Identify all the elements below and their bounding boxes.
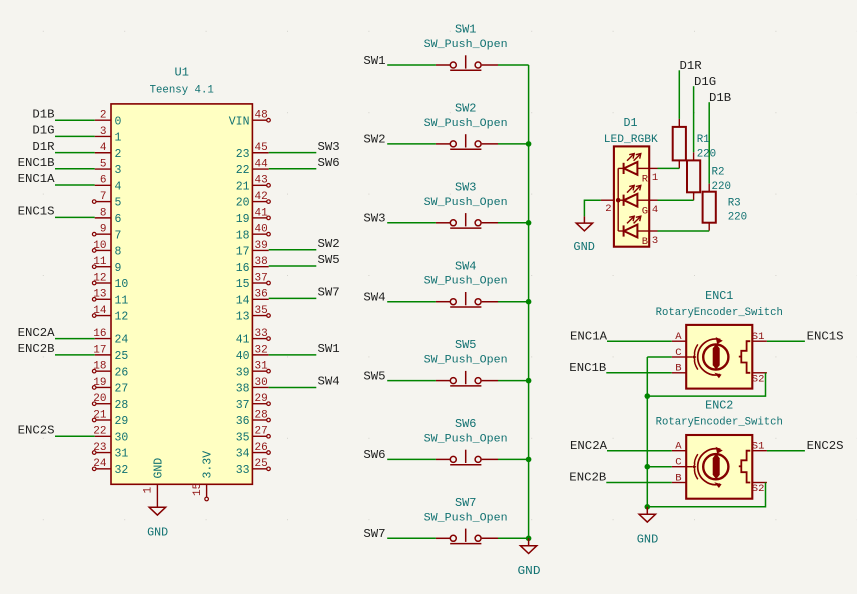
svg-text:SW6: SW6 xyxy=(455,417,477,431)
svg-text:A: A xyxy=(675,331,682,343)
svg-text:A: A xyxy=(675,441,682,453)
U1 pin 6 (4) xyxy=(95,175,122,194)
svg-text:2: 2 xyxy=(100,110,107,122)
wire xyxy=(55,354,95,356)
svg-text:B: B xyxy=(675,363,681,375)
svg-text:31: 31 xyxy=(115,448,129,461)
junction xyxy=(645,464,651,470)
svg-text:39: 39 xyxy=(255,240,268,252)
U1 pin 11 (9) xyxy=(92,256,121,275)
svg-text:42: 42 xyxy=(255,191,268,203)
wire xyxy=(387,380,436,382)
wire xyxy=(55,338,95,340)
svg-text:23: 23 xyxy=(236,148,250,161)
svg-text:SW_Push_Open: SW_Push_Open xyxy=(424,197,508,209)
wire xyxy=(708,102,710,184)
svg-text:SW4: SW4 xyxy=(363,291,385,305)
junction xyxy=(526,299,532,305)
svg-text:20: 20 xyxy=(93,393,106,405)
switch SW5 SW_Push_Open xyxy=(424,338,508,386)
U1 pin 32 (40) xyxy=(236,344,269,363)
svg-text:R2: R2 xyxy=(712,167,725,179)
svg-text:16: 16 xyxy=(93,328,106,340)
svg-text:D1B: D1B xyxy=(32,107,54,121)
svg-text:18: 18 xyxy=(236,229,250,242)
svg-text:SW4: SW4 xyxy=(318,375,340,389)
svg-text:S2: S2 xyxy=(752,483,765,495)
svg-text:GND: GND xyxy=(152,458,165,479)
svg-text:3: 3 xyxy=(100,126,107,138)
svg-text:ENC1A: ENC1A xyxy=(18,172,56,186)
junction xyxy=(645,393,651,399)
U1 pin 44 (22) xyxy=(236,158,269,177)
svg-text:32: 32 xyxy=(255,344,268,356)
resistor R3 220 xyxy=(703,184,748,231)
resistor R2 220 xyxy=(687,152,731,200)
wire xyxy=(387,143,436,145)
wire xyxy=(606,372,672,374)
wire xyxy=(498,64,529,66)
U1 pin 45 (23) xyxy=(236,142,269,161)
U1 pin 16 (24) xyxy=(93,328,128,347)
svg-text:SW3: SW3 xyxy=(318,140,340,154)
wire xyxy=(387,458,436,460)
U1 pin 21 (29) xyxy=(92,409,128,428)
svg-text:19: 19 xyxy=(236,213,250,226)
svg-text:SW_Push_Open: SW_Push_Open xyxy=(424,512,508,524)
svg-text:SW5: SW5 xyxy=(455,338,477,352)
svg-text:GND: GND xyxy=(637,534,659,547)
svg-text:ENC2A: ENC2A xyxy=(18,326,56,340)
wire xyxy=(607,340,672,342)
svg-text:31: 31 xyxy=(255,361,269,373)
resistor R1 220 xyxy=(673,119,717,168)
svg-text:7: 7 xyxy=(100,191,107,203)
svg-text:D1G: D1G xyxy=(32,124,54,138)
svg-text:VIN: VIN xyxy=(229,115,250,128)
encoder ENC1 RotaryEncoder_Switch xyxy=(656,289,783,388)
svg-text:40: 40 xyxy=(255,224,268,236)
svg-text:41: 41 xyxy=(255,207,269,219)
wire xyxy=(55,184,95,186)
svg-text:SW2: SW2 xyxy=(455,102,477,116)
U1 pin 3 (1) xyxy=(95,126,122,145)
wire xyxy=(498,537,529,539)
U1 pin 17 (25) xyxy=(93,344,128,363)
svg-text:ENC2S: ENC2S xyxy=(18,424,55,438)
svg-text:17: 17 xyxy=(236,246,250,259)
U1 pin 22 (30) xyxy=(93,426,128,445)
svg-text:4: 4 xyxy=(652,204,658,216)
svg-text:S2: S2 xyxy=(752,373,765,385)
wire xyxy=(269,265,317,267)
svg-text:35: 35 xyxy=(236,431,250,444)
wire xyxy=(498,301,529,303)
svg-text:D1G: D1G xyxy=(694,75,716,89)
U1 pin 7 (5) xyxy=(92,191,121,210)
wire xyxy=(387,64,436,66)
svg-text:D1B: D1B xyxy=(709,91,731,105)
svg-text:SW5: SW5 xyxy=(363,369,385,383)
wire xyxy=(55,168,95,170)
svg-text:SW_Push_Open: SW_Push_Open xyxy=(424,433,508,445)
svg-text:16: 16 xyxy=(236,262,250,275)
svg-text:26: 26 xyxy=(255,442,268,454)
U1 pin 39 (17) xyxy=(236,240,269,259)
svg-text:38: 38 xyxy=(255,256,268,268)
svg-text:20: 20 xyxy=(236,197,250,210)
svg-text:3.3V: 3.3V xyxy=(202,451,215,479)
svg-text:C: C xyxy=(675,457,681,469)
svg-text:14: 14 xyxy=(93,305,107,317)
svg-text:24: 24 xyxy=(93,458,107,470)
svg-text:SW2: SW2 xyxy=(363,133,385,147)
svg-text:33: 33 xyxy=(236,464,250,477)
U1 pin 9 (7) xyxy=(92,224,121,243)
U1 pin 2 (0) xyxy=(95,110,122,129)
wire xyxy=(55,119,95,121)
wire xyxy=(678,70,680,119)
svg-text:23: 23 xyxy=(93,442,106,454)
wire xyxy=(693,86,695,152)
svg-text:39: 39 xyxy=(236,366,250,379)
svg-text:38: 38 xyxy=(236,383,250,396)
svg-text:SW1: SW1 xyxy=(455,23,477,37)
junction xyxy=(526,220,532,226)
U1 pin 26 (34) xyxy=(236,442,271,461)
svg-text:32: 32 xyxy=(115,464,129,477)
svg-text:17: 17 xyxy=(93,344,106,356)
switch SW6 SW_Push_Open xyxy=(424,417,508,465)
svg-text:19: 19 xyxy=(93,377,106,389)
switch SW2 SW_Push_Open xyxy=(424,102,508,150)
svg-text:SW7: SW7 xyxy=(318,286,340,300)
svg-text:12: 12 xyxy=(115,311,129,324)
svg-text:14: 14 xyxy=(236,294,250,307)
svg-text:1: 1 xyxy=(652,172,658,184)
svg-text:6: 6 xyxy=(100,175,107,187)
svg-text:43: 43 xyxy=(255,175,268,187)
U1 pin 12 (10) xyxy=(92,272,128,291)
svg-text:28: 28 xyxy=(255,409,268,421)
U1 pin 38 (16) xyxy=(236,256,269,275)
svg-text:ENC2B: ENC2B xyxy=(569,471,606,485)
wire xyxy=(767,450,805,452)
wire xyxy=(269,297,317,299)
svg-text:ENC1B: ENC1B xyxy=(569,361,606,375)
ground xyxy=(520,538,536,553)
U1 pin 10 (8) xyxy=(92,240,121,259)
svg-text:GND: GND xyxy=(518,565,541,578)
wire xyxy=(55,152,95,154)
svg-text:8: 8 xyxy=(115,246,122,259)
svg-text:ENC1A: ENC1A xyxy=(570,329,608,343)
U1 pin 8 (6) xyxy=(95,207,122,226)
wire xyxy=(498,222,529,224)
svg-text:220: 220 xyxy=(697,149,717,161)
svg-text:R: R xyxy=(642,174,649,186)
U1 pin 20 (28) xyxy=(92,393,128,412)
wire xyxy=(658,230,710,232)
svg-text:ENC2S: ENC2S xyxy=(807,439,844,453)
U1 pin 5 (3) xyxy=(95,158,122,177)
encoder ENC2 RotaryEncoder_Switch xyxy=(656,399,783,499)
svg-text:9: 9 xyxy=(100,224,107,236)
svg-text:S1: S1 xyxy=(752,331,765,343)
svg-text:15: 15 xyxy=(236,278,250,291)
svg-text:11: 11 xyxy=(93,256,107,268)
svg-text:30: 30 xyxy=(115,431,129,444)
wire xyxy=(607,450,672,452)
svg-text:22: 22 xyxy=(93,426,106,438)
svg-text:SW3: SW3 xyxy=(363,212,385,226)
svg-text:2: 2 xyxy=(605,203,611,215)
svg-text:11: 11 xyxy=(115,294,129,307)
svg-text:Teensy 4.1: Teensy 4.1 xyxy=(150,85,215,97)
svg-text:SW_Push_Open: SW_Push_Open xyxy=(424,39,508,51)
wire xyxy=(767,340,805,342)
wire xyxy=(55,135,95,137)
svg-text:3: 3 xyxy=(652,235,658,247)
svg-text:0: 0 xyxy=(115,115,122,128)
svg-text:30: 30 xyxy=(255,377,268,389)
U1 pin 14 (12) xyxy=(92,305,128,324)
svg-text:1: 1 xyxy=(115,132,122,145)
svg-text:12: 12 xyxy=(93,272,106,284)
svg-text:SW3: SW3 xyxy=(455,180,477,194)
svg-text:45: 45 xyxy=(255,142,268,154)
svg-text:15: 15 xyxy=(192,483,204,496)
svg-text:2: 2 xyxy=(115,148,122,161)
svg-text:D1R: D1R xyxy=(32,140,54,154)
junction xyxy=(526,141,532,147)
svg-text:SW_Push_Open: SW_Push_Open xyxy=(424,118,508,130)
svg-text:8: 8 xyxy=(100,207,107,219)
wire bus xyxy=(528,65,530,538)
svg-text:4: 4 xyxy=(115,180,122,193)
wire xyxy=(387,537,436,539)
U1 pin 19 (27) xyxy=(92,377,128,396)
svg-text:SW7: SW7 xyxy=(363,527,385,541)
U1 pin 33 (41) xyxy=(236,328,271,347)
svg-text:ENC1S: ENC1S xyxy=(807,329,844,343)
svg-text:27: 27 xyxy=(115,383,129,396)
svg-text:5: 5 xyxy=(115,197,122,210)
wire xyxy=(647,356,672,358)
U1 pin 41 (19) xyxy=(236,207,271,226)
U1 pin 23 (31) xyxy=(92,442,128,461)
svg-text:SW7: SW7 xyxy=(455,496,477,510)
svg-text:24: 24 xyxy=(115,334,129,347)
U1 pin 36 (14) xyxy=(236,289,269,308)
U1 pin 28 (36) xyxy=(236,409,271,428)
U1 pin 24 (32) xyxy=(92,458,128,477)
wire xyxy=(498,458,529,460)
svg-text:S1: S1 xyxy=(752,441,765,453)
svg-text:34: 34 xyxy=(236,448,250,461)
svg-text:21: 21 xyxy=(236,180,250,193)
svg-text:SW4: SW4 xyxy=(455,259,477,273)
U1 pin 29 (37) xyxy=(236,393,271,412)
U1 pin 35 (13) xyxy=(236,305,271,324)
svg-text:B: B xyxy=(642,236,648,248)
svg-text:SW6: SW6 xyxy=(318,156,340,170)
wire xyxy=(658,199,694,201)
svg-text:G: G xyxy=(642,205,648,217)
U1 pin 37 (15) xyxy=(236,272,271,291)
switch SW4 SW_Push_Open xyxy=(424,259,508,307)
IC U1 Teensy 4.1 xyxy=(111,65,252,484)
svg-text:RotaryEncoder_Switch: RotaryEncoder_Switch xyxy=(656,307,783,319)
ground xyxy=(149,507,165,515)
svg-text:GND: GND xyxy=(147,526,168,539)
wire xyxy=(658,167,680,169)
svg-text:36: 36 xyxy=(236,415,250,428)
U1 pin 31 (39) xyxy=(236,361,271,380)
svg-text:220: 220 xyxy=(728,212,748,224)
svg-text:C: C xyxy=(675,347,681,359)
svg-text:SW5: SW5 xyxy=(318,253,340,267)
svg-text:29: 29 xyxy=(115,415,129,428)
svg-text:LED_RGBK: LED_RGBK xyxy=(604,134,658,146)
svg-text:22: 22 xyxy=(236,164,250,177)
svg-text:29: 29 xyxy=(255,393,268,405)
svg-text:D1R: D1R xyxy=(680,59,702,73)
svg-text:25: 25 xyxy=(115,350,129,363)
svg-text:ENC1: ENC1 xyxy=(705,289,733,303)
wire xyxy=(584,200,601,216)
U1 pin 30 (38) xyxy=(236,377,269,396)
LED D1 LED_RGBK xyxy=(601,116,658,248)
svg-text:5: 5 xyxy=(100,158,107,170)
svg-text:SW2: SW2 xyxy=(318,237,340,251)
wire xyxy=(498,143,529,145)
svg-text:13: 13 xyxy=(236,311,250,324)
junction xyxy=(526,457,532,463)
switch SW7 SW_Push_Open xyxy=(424,496,508,544)
junction xyxy=(526,378,532,384)
svg-text:37: 37 xyxy=(255,272,268,284)
svg-text:10: 10 xyxy=(115,278,129,291)
U1 pin 4 (2) xyxy=(95,142,122,161)
U1 pin 13 (11) xyxy=(92,289,128,308)
wire xyxy=(269,249,317,251)
svg-text:35: 35 xyxy=(255,305,268,317)
svg-text:18: 18 xyxy=(93,361,106,373)
svg-text:44: 44 xyxy=(255,158,269,170)
U1 pin 42 (20) xyxy=(236,191,271,210)
svg-text:ENC2A: ENC2A xyxy=(570,439,608,453)
wire xyxy=(387,301,436,303)
svg-text:37: 37 xyxy=(236,399,250,412)
ground xyxy=(576,216,592,231)
U1 pin 27 (35) xyxy=(236,426,271,445)
svg-text:6: 6 xyxy=(115,213,122,226)
switch SW3 SW_Push_Open xyxy=(424,180,508,228)
svg-text:26: 26 xyxy=(115,366,129,379)
svg-text:SW_Push_Open: SW_Push_Open xyxy=(424,355,508,367)
svg-text:21: 21 xyxy=(93,409,107,421)
svg-text:D1: D1 xyxy=(624,116,638,130)
svg-text:GND: GND xyxy=(573,241,595,254)
svg-text:36: 36 xyxy=(255,289,268,301)
svg-text:ENC2B: ENC2B xyxy=(18,342,55,356)
U1 pin 40 (18) xyxy=(236,224,271,243)
svg-text:SW1: SW1 xyxy=(363,54,385,68)
junction xyxy=(526,536,532,542)
svg-text:33: 33 xyxy=(255,328,268,340)
svg-text:3: 3 xyxy=(115,164,122,177)
wire xyxy=(498,380,529,382)
U1 pin 48 (VIN) xyxy=(229,110,271,129)
wire xyxy=(647,466,672,468)
svg-text:U1: U1 xyxy=(175,65,189,79)
svg-text:10: 10 xyxy=(93,240,106,252)
wire bus xyxy=(646,357,648,507)
svg-text:SW_Push_Open: SW_Push_Open xyxy=(424,276,508,288)
svg-text:28: 28 xyxy=(115,399,129,412)
svg-text:27: 27 xyxy=(255,426,268,438)
wire xyxy=(269,168,317,170)
wire xyxy=(387,222,436,224)
junction xyxy=(645,504,651,510)
svg-text:R1: R1 xyxy=(697,134,710,146)
U1 pin 15 (3.3V) xyxy=(192,451,215,501)
svg-text:RotaryEncoder_Switch: RotaryEncoder_Switch xyxy=(656,416,783,428)
svg-text:SW6: SW6 xyxy=(363,448,385,462)
svg-text:B: B xyxy=(675,472,681,484)
svg-text:4: 4 xyxy=(100,142,107,154)
wire xyxy=(55,435,95,437)
wire xyxy=(269,387,317,389)
svg-text:1: 1 xyxy=(143,487,155,494)
svg-text:25: 25 xyxy=(255,458,268,470)
wire xyxy=(606,482,672,484)
wire xyxy=(269,152,317,154)
wire xyxy=(55,216,95,218)
svg-text:40: 40 xyxy=(236,350,250,363)
wire xyxy=(269,354,317,356)
svg-text:R3: R3 xyxy=(728,198,741,210)
U1 pin 43 (21) xyxy=(236,175,271,194)
svg-text:13: 13 xyxy=(93,289,106,301)
wire xyxy=(647,373,765,396)
U1 pin 25 (33) xyxy=(236,458,271,477)
svg-text:ENC1B: ENC1B xyxy=(18,156,55,170)
ground xyxy=(639,507,655,522)
wire xyxy=(647,483,765,507)
switch SW1 SW_Push_Open xyxy=(424,23,508,71)
svg-text:7: 7 xyxy=(115,229,122,242)
svg-text:ENC1S: ENC1S xyxy=(18,205,55,219)
svg-text:48: 48 xyxy=(255,110,268,122)
U1 pin 1 (GND) xyxy=(143,458,166,507)
svg-text:9: 9 xyxy=(115,262,122,275)
svg-text:ENC2: ENC2 xyxy=(705,399,733,413)
svg-text:41: 41 xyxy=(236,334,250,347)
svg-text:SW1: SW1 xyxy=(318,342,340,356)
U1 pin 18 (26) xyxy=(92,361,128,380)
